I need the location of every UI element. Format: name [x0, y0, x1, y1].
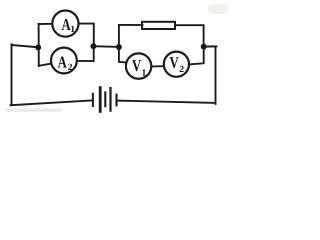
- node D4: [201, 44, 207, 50]
- wire V2 right up to node D4: [190, 47, 204, 64]
- ammeter A1: [52, 11, 78, 37]
- battery B1 plate 5 (short): [115, 95, 117, 106]
- voltmeter V1: [126, 53, 151, 78]
- node D1: [35, 44, 41, 50]
- wire V1 to V2: [152, 65, 162, 67]
- ammeter A2: [51, 48, 77, 74]
- node D3: [116, 44, 122, 50]
- wire top-left horizontal (left rail to node D1): [12, 45, 39, 47]
- wire bottom-right (battery to right rail): [117, 101, 216, 103]
- wire bottom-left (rail to battery): [11, 100, 93, 105]
- wire left-block vertical (A1 branch to A2 branch): [38, 24, 40, 66]
- battery B1 plate 1 (short): [92, 94, 94, 106]
- wire left rail vertical: [11, 44, 13, 105]
- wire node D2 up to ammeter A1 branch: [80, 24, 94, 47]
- wire right rail vertical: [215, 46, 217, 104]
- wire resistor left down to node D3: [119, 25, 143, 47]
- scan smudge bottom-left: [5, 109, 62, 112]
- wire A1 left to left-block vertical: [39, 23, 51, 25]
- svg-text:2: 2: [68, 63, 73, 73]
- wire to ammeter A2: [39, 64, 51, 66]
- battery B1 plate 3 (short): [104, 92, 106, 106]
- battery B1 plate 4 (long): [109, 88, 111, 111]
- node D2: [90, 43, 96, 49]
- battery B1 plate 2 (long): [99, 88, 102, 112]
- wire node D3 down to voltmeter V1: [119, 47, 126, 63]
- svg-text:V: V: [132, 57, 142, 75]
- wire right-top (rail to node D4): [204, 45, 217, 47]
- voltmeter V2: [164, 52, 189, 77]
- svg-text:A: A: [58, 54, 68, 72]
- svg-text:V: V: [170, 54, 180, 72]
- svg-text:1: 1: [142, 68, 147, 78]
- wire A2 right to node D2: [78, 47, 94, 62]
- svg-text:2: 2: [179, 65, 184, 75]
- svg-text:1: 1: [70, 25, 75, 35]
- wire node D4 up to resistor branch: [176, 25, 204, 47]
- resistor R: [142, 22, 175, 29]
- scan smudge top-right: [208, 4, 228, 14]
- wire node D2 to node D3: [93, 45, 119, 48]
